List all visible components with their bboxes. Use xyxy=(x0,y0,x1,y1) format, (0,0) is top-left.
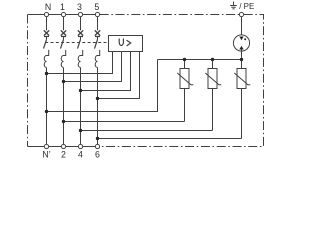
varistor MOV2 xyxy=(205,60,221,131)
wire terminal 1 to terminal 3 xyxy=(66,14,79,16)
wire terminal 2 to terminal 4 xyxy=(66,146,79,148)
svg-text:N’: N’ xyxy=(42,150,50,160)
junction pole 3 / MOV2 wire xyxy=(79,129,82,132)
svg-text:2: 2 xyxy=(61,150,66,160)
enclosure border left (dash-dot) xyxy=(27,15,29,147)
wire top-left corner to terminal N xyxy=(28,14,45,16)
terminal 5 (top) xyxy=(95,12,99,16)
wire pole N to varistor bus xyxy=(47,60,158,112)
label U> xyxy=(119,39,123,46)
svg-text:/ PE: / PE xyxy=(239,2,254,11)
sense wire from U> to node on pole N xyxy=(47,52,113,74)
bottom wire left corner to terminal N' xyxy=(28,146,45,148)
svg-text:1: 1 xyxy=(60,2,65,12)
wire terminal N' to terminal 2 xyxy=(49,146,62,148)
earth symbol xyxy=(230,2,237,9)
wire MOV1 to pole 1 xyxy=(64,121,185,123)
junction pole 5 / sense wire xyxy=(96,97,99,100)
junction pole 1 / MOV1 wire xyxy=(62,120,65,123)
terminal PE (top right) xyxy=(239,12,243,16)
sense wire from U> to node on pole 1 xyxy=(64,52,122,82)
terminal 2 (bottom) xyxy=(61,144,65,148)
wire terminal N to terminal 1 xyxy=(49,14,62,16)
varistor MOV3 xyxy=(234,60,250,139)
junction pole 1 / sense wire xyxy=(62,80,65,83)
terminal 3 (top) xyxy=(78,12,82,16)
terminal 6 (bottom) xyxy=(95,144,99,148)
junction pole 5 / MOV3 wire xyxy=(96,137,99,140)
enclosure border right with top/bottom segments (dash-dot) xyxy=(100,15,264,147)
wire top dash-dot from terminal 5 to PE terminal xyxy=(100,14,240,16)
wire MOV2 to pole 3 xyxy=(81,130,213,132)
junction bus / MOV3 xyxy=(240,58,243,61)
pole 1: feed wire, thermal disconnector, switch contact, inductor, through-wire xyxy=(61,17,67,145)
junction bus / MOV2 xyxy=(211,58,214,61)
svg-text:5: 5 xyxy=(94,2,99,12)
pole 5: feed wire, thermal disconnector, switch contact, inductor, through-wire xyxy=(95,17,101,145)
junction pole 3 / sense wire xyxy=(79,89,82,92)
monitoring unit U> box xyxy=(109,36,143,52)
varistor bus wire xyxy=(158,59,242,61)
sense wire from U> to node on pole 3 xyxy=(81,52,131,91)
pole N: feed wire, thermal disconnector, switch contact, inductor, through-wire xyxy=(44,17,50,145)
spark gap between PE terminal and varistor bus xyxy=(233,17,249,58)
svg-text:4: 4 xyxy=(78,150,83,160)
junction pole N / sense wire xyxy=(45,72,48,75)
terminal N' (bottom) xyxy=(44,144,48,148)
varistor MOV1 xyxy=(177,60,193,122)
junction pole N / bus wire xyxy=(45,110,48,113)
mechanical trip linkage (dashed) from switches to monitoring unit xyxy=(45,42,108,44)
svg-text:N: N xyxy=(45,2,51,12)
wire terminal 3 to terminal 5 xyxy=(83,14,96,16)
sense wire from U> to node on pole 5 xyxy=(98,52,140,99)
pole 3: feed wire, thermal disconnector, switch contact, inductor, through-wire xyxy=(78,17,84,145)
svg-text:3: 3 xyxy=(77,2,82,12)
wire MOV3 to pole 5 xyxy=(98,138,242,140)
terminal 1 (top) xyxy=(61,12,65,16)
wire terminal 4 to terminal 6 xyxy=(83,146,96,148)
junction bus / MOV1 xyxy=(183,58,186,61)
svg-text:6: 6 xyxy=(95,150,100,160)
terminal N (top) xyxy=(44,12,48,16)
terminal 4 (bottom) xyxy=(78,144,82,148)
